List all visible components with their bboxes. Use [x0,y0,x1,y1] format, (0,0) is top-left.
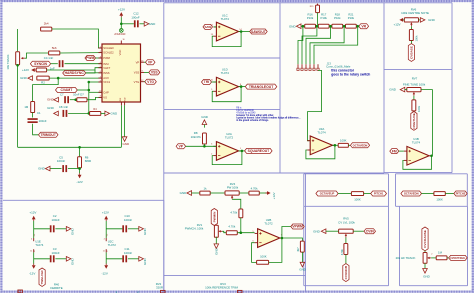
svg-text:10k/47k: 10k/47k [191,135,202,139]
svg-text:-12V: -12V [102,271,108,275]
wire VCC to C12 [121,23,134,25]
ground GND RV6 [420,18,435,23]
svg-text:4: 4 [104,239,105,241]
ground GND RV1 [214,244,219,255]
svg-text:RV7: RV7 [412,77,418,81]
IC right pins [134,60,144,84]
ground GND C12 [144,22,156,27]
ground GND R14 [299,262,307,271]
net label OCTAVEUP row [316,191,338,196]
svg-text:100nF: 100nF [57,159,65,163]
svg-text:HARDSYNC: HARDSYNC [65,71,85,75]
svg-text:PWM: PWM [103,56,110,60]
resistor R15 top [310,4,320,13]
svg-text:in the grand scheme of things.: in the grand scheme of things. [236,119,269,122]
net label PWMIN [211,209,217,226]
svg-text:VPWM: VPWM [292,225,303,229]
svg-text:+12V: +12V [22,68,29,72]
ground GND R2 row [20,76,32,81]
wire U2B feedback [252,243,257,263]
wire to VFC1 pin [89,81,102,83]
note rotary switch [331,69,370,77]
ground GND octave chain [289,24,301,29]
svg-text:FERRITE: FERRITE [50,286,62,290]
svg-text:GND: GND [122,142,130,146]
svg-text:FM: FM [392,149,397,153]
net label PWM [85,56,96,61]
svg-text:CVKNOB: CVKNOB [344,265,348,279]
junction R6 bottom [78,167,81,170]
svg-text:4.70k: 4.70k [228,225,235,229]
wire +12V down U2C [105,221,107,238]
wire U3A feedback [306,145,335,159]
net label CVOUTFINAL [449,255,468,260]
junction U2A output [241,150,244,153]
svg-text:10nF D7: 10nF D7 [73,93,84,97]
power +12V left row [22,68,36,72]
svg-text:GND: GND [428,18,436,22]
wire GND to R16 [301,25,305,27]
svg-text:PWMCH, 100k: PWMCH, 100k [185,227,204,231]
wire PWM to pin [96,57,102,59]
trimmer RV3 partial [238,290,243,293]
ground GND above R8 [201,115,209,125]
svg-text:C7: C7 [60,93,64,97]
resistor R10 1k [200,186,210,195]
svg-text:100K: 100K [260,255,267,259]
wire RV4 wiper down [232,199,241,209]
junction C7 row [74,98,77,101]
svg-text:100nF: 100nF [51,251,59,255]
ground GND cap1 U1E [66,227,74,235]
svg-text:TL074: TL074 [221,17,230,21]
svg-text:SCALE0: SCALE0 [103,46,114,50]
wire tap5 [314,26,358,64]
resistor R14 4k7 [296,241,304,252]
svg-text:VR: VR [361,24,366,28]
wire cap2 to GND U2C [128,258,139,260]
wire RV6 to GND [419,19,421,21]
sheet frame octaveup row [304,174,389,207]
op-amp U3A [307,127,335,155]
cut text marks bottom [18,290,139,293]
svg-text:100nF: 100nF [51,218,59,222]
net label FINETUNE [411,112,417,131]
svg-text:16: 16 [141,60,143,62]
wire C5 to R6 [68,168,80,170]
power +12V U1E [29,211,36,222]
net label TRI [202,80,212,85]
capacitor C8 1nF [59,105,68,117]
svg-text:9: 9 [100,96,101,98]
svg-text:PITCH2: PITCH2 [456,192,466,196]
svg-text:PWM: PWM [86,56,94,60]
svg-text:CVOUTFINAL: CVOUTFINAL [450,257,466,260]
wire R23 to label [413,110,415,113]
junction R8 bottom [203,145,206,148]
wire cap row2 U2C [106,258,122,260]
svg-text:GND: GND [20,76,28,80]
wire R11 to +12V [259,192,267,194]
wire tap1 [298,26,303,64]
wire C7 to R3 [70,99,77,101]
value 1nF [50,66,55,70]
wire CVAMT to junction [77,89,89,91]
junction pot bottom [16,64,19,67]
svg-text:-12V: -12V [76,180,82,184]
svg-text:C4 1nF: C4 1nF [44,56,54,60]
net label VR [359,24,369,29]
svg-text:100k REFERENCE TRIM: 100k REFERENCE TRIM [205,286,238,290]
note R8 text [236,108,300,123]
resistor 2k4 [41,21,52,31]
resistor 1k5 [36,68,46,72]
wire RV7 wiper down [413,96,415,100]
svg-text:VEE: VEE [120,97,122,102]
potentiometer RV8 10k TRACK [6,52,25,70]
op-amp power pins U1E [30,233,44,252]
svg-text:SCALE2: SCALE2 [103,51,114,55]
IC U4 AS3340 body [102,29,141,103]
potentiometer RV1 PWMCH 100k [185,223,223,237]
svg-text:100K: 100K [436,198,443,202]
junction VFC1 row [88,81,91,84]
resistor R22 100k RV6 [409,30,418,42]
potentiometer RV5 CV LVL 100k [338,217,355,238]
junction R2 row [57,77,60,80]
wire tap4 [310,26,344,64]
wire 5k6 to SCALE2 [60,52,102,54]
wire R13 to U2B [237,232,254,234]
svg-text:5k6: 5k6 [52,46,57,50]
junction U1B output [430,155,433,158]
ground GND RV9 [423,269,431,279]
svg-text:CVCOARSE: CVCOARSE [423,230,427,248]
svg-text:PWMIN: PWMIN [212,211,216,222]
sheet frame PWM [164,173,306,275]
ground GND PWM row [180,191,192,196]
resistor R16 P10k [305,13,316,29]
ground GND RV5 [313,229,326,234]
resistor R18 P10k [332,13,343,29]
net label CVKNOB [343,264,349,282]
capacitor C11 100nF [122,247,132,262]
ground GND cap2 U2C [139,257,147,265]
svg-text:SAW: SAW [205,25,212,29]
sheet frame TRIANGLEOUT [164,58,280,109]
wire bus to IC VEE pin [120,105,122,147]
svg-text:SYNCIN: SYNCIN [34,62,47,66]
op-amp U2A [211,132,242,160]
power -12V U1E [29,264,36,276]
svg-text:goes to the rotary switch: goes to the rotary switch [331,72,370,76]
svg-text:TRI: TRI [204,80,210,84]
value RV2 320R [156,282,163,290]
resistor R2 1k [37,76,49,85]
wire GND to R8 [203,125,205,128]
resistor R19 100K [338,139,348,148]
wire C1 to TRIMOUT [33,124,39,135]
svg-text:GND: GND [47,98,55,102]
component L1 partial [18,290,23,293]
wire R2 to pin [49,77,101,79]
junction U2B output [281,237,284,240]
wire RV1 wiper to R13 [222,231,226,232]
svg-text:P10k: P10k [321,16,328,20]
resistor R1 1M [24,102,34,113]
wire octaveup row right [364,193,371,195]
wire R20 to output [269,238,282,262]
svg-text:C1: C1 [37,111,41,115]
wire C12 to GND [140,23,145,25]
power +12V U2C [102,211,109,222]
svg-text:7: 7 [100,76,101,78]
net label OCTAVEDN row [401,191,422,196]
resistor R3 [77,98,87,102]
net label VTG [144,79,156,84]
wire SAW to +in [214,26,217,28]
resistor R11 4.7k [249,186,259,195]
op-amp U1C [211,14,243,41]
svg-text:GND: GND [389,88,397,92]
wire R12 down [240,218,242,233]
svg-text:TL074: TL074 [35,243,44,247]
svg-text:VTG: VTG [134,80,140,84]
svg-text:100nF: 100nF [124,218,132,222]
wire R3 to VS pin [87,97,102,99]
svg-text:+12V: +12V [272,192,276,199]
net label PITCH2 [454,191,467,196]
svg-text:TL074: TL074 [221,71,230,75]
wire bottom bus [18,146,122,148]
trimmer RV9 20k HF TRACK [396,253,434,264]
value RV3 reference trim [205,282,238,290]
wire cap1 to GND U2C [128,228,139,230]
wire VP to +in [186,145,217,147]
svg-text:R2: R2 [41,81,45,85]
capacitor C2 100nF [50,214,60,232]
svg-text:VHFT: VHFT [103,66,110,70]
ground GND RV7 [389,87,405,92]
svg-text:8: 8 [142,71,143,73]
svg-text:OCTAVEDN: OCTAVEDN [404,192,419,196]
resistor R27 470k [340,244,348,256]
svg-text:GND: GND [38,167,46,171]
net label VSS [144,70,160,75]
svg-text:CVAMT: CVAMT [60,88,73,92]
net label VP frame3 [176,144,186,149]
svg-text:5: 5 [100,66,101,68]
svg-text:12: 12 [141,80,143,82]
svg-text:16: 16 [123,39,125,41]
svg-text:1M: 1M [24,105,29,109]
resistor R20 100K fb [257,255,269,265]
wire RV9 to GND [424,263,426,268]
svg-text:FINETUNE: FINETUNE [412,113,416,128]
resistor R21 P10k [346,13,357,29]
svg-text:SQUAREOUT: SQUAREOUT [248,149,271,153]
resistor R8 [191,131,207,144]
svg-text:4: 4 [100,62,101,64]
sheet frame SQUAREOUT [164,109,280,173]
junction C8 row [88,112,91,115]
svg-text:GND: GND [289,24,297,28]
wire RV5 wiper down [345,238,347,244]
svg-text:VP: VP [136,60,140,64]
wire FM to +in [399,150,404,152]
wire cap2 to GND U1E [55,258,66,260]
svg-text:+12V: +12V [102,211,109,215]
wire PWMIN to RV1 [214,225,216,228]
net label CVIN [364,229,376,234]
svg-text:4.70k: 4.70k [251,186,258,190]
wire RV7 to U1B net [421,90,432,156]
svg-text:GND: GND [201,115,209,119]
wire 1k5 to VHFT [47,68,102,70]
wire 1M to C1 [32,113,34,118]
svg-text:GND: GND [149,22,157,26]
svg-text:VSS: VSS [134,71,140,75]
svg-text:VTG: VTG [147,80,154,84]
wire pin6 to U3A [308,70,322,140]
svg-text:INSS: INSS [103,71,109,75]
wire 2k4 left leg [17,29,19,51]
power +12V RV6 [393,18,404,27]
svg-text:100K: 100K [354,198,361,202]
svg-text:20k HF TRACK: 20k HF TRACK [396,256,416,260]
wire +12V to RV6 [403,19,404,21]
junction R12 bottom [240,231,243,234]
resistor R25 100K [434,192,445,202]
capacitor C7 10nF [60,93,84,104]
svg-text:GND: GND [71,227,75,235]
potentiometer RV6 100k CENTRE NOTE [401,7,429,26]
potentiometer RV7 FINE TUNE 100k [403,77,426,96]
resistor R13 4.70k [226,225,237,235]
wire V- down U1E [33,252,35,263]
sheet frame octave switch / U3A [280,3,384,173]
svg-text:V-: V- [34,250,36,252]
wire R27 to label [345,255,347,264]
svg-text:CV LVL 100k: CV LVL 100k [338,220,355,224]
sheet frame RV3 reference trim strip [164,275,306,292]
net label FM [390,149,399,154]
svg-text:PITCH1: PITCH1 [374,192,384,196]
wire left bus vertical [17,65,19,147]
net label SQUAREOUT [245,148,273,153]
wire cap row2 U1E [34,258,50,260]
svg-text:GND: GND [47,106,55,110]
wire R14 to GND [301,252,303,262]
resistor R6 6800 [78,155,92,167]
capacitor C5 100nF [57,155,67,172]
svg-text:100nF: 100nF [131,15,139,19]
wire U2A feedback [212,151,242,165]
net label OCTAVEDN frame [350,143,369,148]
net label VP [144,60,155,65]
resistor R24 100K [351,192,363,202]
svg-text:V-: V- [106,250,108,252]
svg-text:OCTAVEDN: OCTAVEDN [353,143,368,147]
junction U3A output [334,144,337,147]
svg-text:2k4: 2k4 [44,21,49,25]
ground GND IC bottom [122,137,130,146]
svg-text:VP: VP [179,145,184,149]
wire RV6 wiper down [410,26,412,29]
svg-text:1: 1 [100,46,101,48]
sheet frame RV5 CV LVL [304,206,389,285]
svg-text:P10k: P10k [334,16,341,20]
svg-text:OCTAVEUP: OCTAVEUP [320,192,335,196]
wire U2B out to VPWM [282,227,291,239]
wire R22 to label [410,41,412,44]
potentiometer RV4 PW 100k [225,182,239,199]
wire tap3 [306,26,331,64]
wire octavedn row right [445,193,454,195]
wire R6 to C5 junction [79,168,81,173]
net label HARDSYNC [63,71,86,76]
wire cap row1 U1E [34,228,50,230]
junction U1D output [240,85,243,88]
svg-text:GND: GND [299,268,307,272]
svg-text:11: 11 [30,250,32,252]
svg-text:TL074: TL074 [317,131,326,135]
wire GND to R10 [192,192,200,194]
svg-text:VP: VP [148,60,153,64]
svg-text:100nF: 100nF [39,119,47,123]
wire GND to RV7 [405,89,407,91]
svg-text:13: 13 [99,91,101,93]
svg-text:FINE TUNE 100k: FINE TUNE 100k [403,83,426,87]
svg-text:8: 8 [100,80,101,82]
op-amp power pins U2C [103,233,117,252]
wire bus to R6 [79,147,81,157]
resistor R23 100k RV7 [412,100,421,112]
wire octaveup row left [338,193,351,195]
capacitor C1 100nF [28,111,47,123]
svg-text:GND: GND [110,112,118,116]
svg-text:CVBASE: CVBASE [410,46,414,59]
wire GND to RV5 [326,230,339,232]
svg-text:4k7: 4k7 [296,247,300,252]
junction VCC [120,23,123,26]
wire R28 to label [447,257,449,259]
ground GND cap2 U1E [66,257,74,265]
wire GND to C5 [50,168,62,170]
wire TRI to +in [212,81,217,83]
resistor R28 1M [436,251,447,260]
svg-text:100k CENTRE NOTE: 100k CENTRE NOTE [401,11,429,15]
net label VPWM [291,224,304,229]
svg-text:+12V: +12V [29,211,36,215]
wire label to RV9 [424,251,426,253]
svg-text:100nF: 100nF [124,251,132,255]
wire U1B feedback [403,156,432,170]
svg-text:10k TRACK: 10k TRACK [6,54,10,69]
sheet frame power decoupling [3,200,164,292]
resistor 5k6 [49,46,60,55]
svg-text:11: 11 [103,250,105,252]
svg-text:3: 3 [100,56,101,58]
sheet frame SAWOUT [164,3,280,58]
wire cap1 to GND U1E [55,228,66,230]
svg-text:P10k: P10k [348,16,355,20]
resistor R12 4.7k vert [230,209,242,218]
wire RV1 bottom to GND [215,237,217,244]
svg-text:PW 100k: PW 100k [227,186,239,190]
net label CVBASE [408,44,414,62]
svg-text:INSI: INSI [103,62,108,66]
